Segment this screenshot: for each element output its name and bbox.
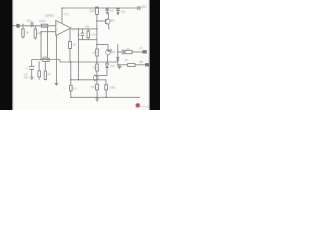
svg-text:100k: 100k (39, 19, 46, 23)
wire: zobel drop (77, 29, 79, 80)
capacitor C9 (output) (122, 50, 124, 55)
svg-text:1N: 1N (125, 59, 128, 62)
resistor R3 (series) (41, 24, 48, 27)
junction dots (40, 7, 119, 98)
wire: inverting input drop (40, 32, 42, 60)
black side bar left (0, 0, 12, 111)
svg-text:2.2: 2.2 (73, 86, 77, 90)
white schematic background (0, 0, 160, 110)
svg-text:0.1u: 0.1u (64, 12, 70, 16)
capacitor C2 (zobel) (82, 29, 84, 40)
svg-text:10k: 10k (37, 31, 42, 35)
capacitor C8 (100n) (105, 80, 107, 85)
svg-text:10u: 10u (85, 26, 90, 29)
wire: top +12V rail (62, 7, 139, 9)
wire: diode to Q3 (97, 75, 107, 77)
diode D1 (106, 62, 108, 64)
svg-text:10k: 10k (42, 55, 47, 59)
capacitor C5 (feedback shunt) (31, 60, 33, 67)
svg-text:10u: 10u (26, 18, 31, 22)
wire: feedback top link (47, 27, 49, 58)
capacitor C1 (series coupling) (30, 22, 32, 27)
wire: mid bus (71, 79, 106, 81)
capacitor C7 (70, 85, 73, 91)
svg-text:47u: 47u (24, 76, 29, 80)
capacitor C6 (38, 61, 40, 71)
svg-text:4.7k: 4.7k (91, 32, 97, 36)
wire: Q2 base link (97, 44, 108, 46)
resistor R10 (bias chain below rail) (96, 62, 98, 64)
resistor R4 (on x70 chain) (68, 42, 71, 49)
transistor Q3 (93, 75, 98, 80)
wire: V+ supply drop to pin 7 (61, 8, 63, 23)
resistor R11 (100) (96, 80, 98, 84)
svg-text:1k: 1k (26, 31, 30, 35)
svg-text:10: 10 (93, 50, 97, 54)
diode D2 (117, 57, 120, 60)
transistor Q2 (106, 50, 111, 55)
wire: speaker top line (118, 51, 122, 53)
capacitor C4 (10u rail) (117, 7, 119, 10)
wire: inverting input stub (41, 31, 56, 33)
resistor R13 (128, 64, 135, 67)
terminal LS- (146, 64, 149, 66)
wire: x70 chain lower (70, 62, 72, 85)
svg-text:1R: 1R (126, 48, 129, 51)
resistor R12 (125, 50, 132, 53)
svg-text:10u: 10u (121, 10, 126, 14)
wire: Q1 base link (97, 20, 106, 22)
terminal LS+ (143, 51, 147, 53)
resistor R1 (shunt at input) (22, 24, 24, 29)
logo (red watermark) (136, 103, 153, 108)
svg-text:100: 100 (91, 85, 96, 89)
svg-text:BD2: BD2 (110, 50, 116, 54)
labels (24, 5, 147, 91)
ground (bottom) (95, 99, 99, 101)
resistor R5 (87, 29, 89, 31)
wire: bottom ground bus (71, 96, 140, 98)
ground (pin4) (55, 83, 59, 85)
svg-text:220: 220 (89, 9, 95, 13)
svg-text:10: 10 (93, 66, 97, 70)
wire: output from apex (71, 28, 97, 30)
wire: op-amp pin4 drop (55, 35, 57, 84)
wire: apex down chain (69, 29, 71, 42)
svg-text:OP07: OP07 (45, 14, 54, 18)
svg-text:1n: 1n (77, 32, 81, 36)
svg-text:BD1: BD1 (110, 19, 116, 23)
resistor R9 (44, 61, 46, 71)
terminal +12V (138, 7, 140, 9)
svg-text:+: + (26, 66, 28, 70)
wire: bias chain lower (96, 45, 98, 50)
resistor R8 (feedback) (43, 58, 49, 61)
svg-text:1k: 1k (73, 42, 77, 46)
wire: lower zobel bus (78, 39, 96, 41)
svg-text:0.1: 0.1 (110, 9, 114, 13)
svg-text:LS: LS (139, 46, 143, 50)
ground (speaker line) (117, 65, 121, 69)
input terminal J1 (17, 24, 19, 27)
wire: output node drop (117, 44, 119, 65)
transistor Q1 (105, 19, 110, 24)
svg-text:1N4: 1N4 (110, 65, 115, 68)
svg-text:100n: 100n (109, 86, 116, 90)
svg-text:12V: 12V (140, 5, 147, 9)
op-amp U1 (56, 20, 71, 35)
wire: bias chain (96, 7, 98, 45)
wire: speaker bottom line (118, 64, 128, 66)
resistor R2 (shunt to ground) (34, 26, 36, 29)
wire: input signal line (12, 25, 56, 27)
svg-text:8R: 8R (139, 60, 143, 64)
wire: ground rail (32, 60, 118, 63)
capacitor C3 (0.1 decoupling) (106, 8, 108, 9)
resistor R6 220 (96, 7, 99, 14)
resistor R7 (96, 49, 99, 56)
black side bar right (150, 0, 161, 111)
